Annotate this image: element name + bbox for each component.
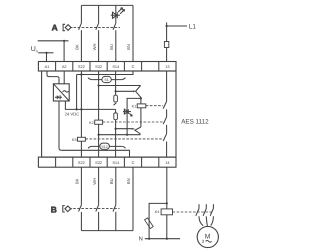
svg-text:n: n xyxy=(36,48,38,53)
svg-text:K2: K2 xyxy=(89,121,94,125)
svg-text:S32: S32 xyxy=(95,64,102,69)
svg-text:S22: S22 xyxy=(78,160,85,165)
actuator magnet A xyxy=(63,24,72,30)
resistor R1 xyxy=(114,95,118,102)
wire BN to C xyxy=(132,5,134,61)
wire BU to bus B xyxy=(115,212,117,231)
svg-text:C: C xyxy=(132,160,135,165)
contact sensor B ch2 xyxy=(96,205,99,212)
wire between contacts 2-3 xyxy=(166,125,168,134)
svg-text:K4: K4 xyxy=(155,210,160,214)
wire BK to bus B xyxy=(80,212,82,231)
wire BU lower xyxy=(115,167,117,205)
svg-text:BN: BN xyxy=(126,44,131,50)
contactor K4 pole 2 xyxy=(203,204,207,226)
power supply U1 xyxy=(53,84,69,101)
svg-text:S1: S1 xyxy=(104,78,108,82)
relay AES 1112 body xyxy=(42,71,176,157)
svg-text:S14: S14 xyxy=(112,64,120,69)
svg-text:S14: S14 xyxy=(112,160,120,165)
junction N varistor xyxy=(148,238,150,240)
terminal strip top row xyxy=(38,62,176,72)
wire A2 into PSU xyxy=(63,71,65,84)
wire WH lower xyxy=(98,167,100,205)
wire N line xyxy=(145,238,180,240)
wire chevron2 rail xyxy=(99,134,141,136)
contact sensor A ch1 xyxy=(79,23,82,30)
varistor RV1 xyxy=(145,218,154,229)
svg-text:A2: A2 xyxy=(62,64,67,69)
wire 0V bus to C bottom xyxy=(61,150,129,157)
svg-text:K3: K3 xyxy=(72,138,77,142)
svg-text:A1: A1 xyxy=(45,64,50,69)
wire stub above L1 junction xyxy=(166,22,168,26)
svg-text:S12: S12 xyxy=(101,145,107,149)
svg-text:M: M xyxy=(205,234,211,241)
svg-text:S32: S32 xyxy=(95,160,102,165)
contact sensor B ch1 xyxy=(79,205,82,212)
svg-text:BU: BU xyxy=(109,178,114,184)
wire A1 into PSU xyxy=(47,71,59,84)
LED internal xyxy=(123,109,132,116)
contact K3 output xyxy=(163,134,166,141)
junction varistor branch xyxy=(166,202,168,204)
motor M1 xyxy=(197,226,218,247)
contact sensor A ch2 xyxy=(96,23,99,30)
mechanical link sensor B xyxy=(73,208,119,210)
fuse F1 xyxy=(164,42,168,48)
wire LED branch xyxy=(127,98,141,109)
wire contact 3 to terminal 14 xyxy=(166,142,168,158)
LED sensor A xyxy=(111,8,125,19)
wire sensor B bottom bus xyxy=(81,230,133,232)
wire arrow to K1 contact xyxy=(116,90,136,92)
contact sensor A ch3 xyxy=(113,23,116,30)
wire K2 to S32 bottom xyxy=(98,124,100,157)
junction riser xyxy=(76,108,78,110)
wire arrow to K2 contact xyxy=(116,128,135,130)
junction S22 24V xyxy=(80,108,82,110)
svg-text:A: A xyxy=(52,22,58,32)
wire S14 internal upper xyxy=(115,71,117,95)
wire S14 internal lower xyxy=(115,120,117,157)
svg-text:B: B xyxy=(51,204,57,214)
junction S14 branch xyxy=(115,90,117,92)
svg-text:BU: BU xyxy=(109,44,114,50)
jumper oval S1 xyxy=(88,76,126,82)
wire BK upper xyxy=(80,5,82,23)
wire A1 drop xyxy=(46,53,48,62)
junction K1 node xyxy=(140,97,142,99)
wire varistor to N xyxy=(148,228,150,238)
wire BK to S22 xyxy=(80,30,82,61)
wire Un upper to A2 xyxy=(38,40,69,42)
relay coil K4 xyxy=(161,209,172,215)
contactor K4 pole 3 xyxy=(210,204,213,225)
wire K4 to N xyxy=(166,215,168,239)
svg-text:WH: WH xyxy=(92,44,97,51)
contact K1 output xyxy=(163,101,166,108)
mechanical link K4 xyxy=(173,211,214,213)
wire terminal 13 internal xyxy=(166,71,168,101)
wire WH to S32 xyxy=(98,30,100,61)
wire S22 internal xyxy=(80,71,82,137)
wire LED to rail xyxy=(126,109,128,135)
wire A2 drop xyxy=(63,41,65,62)
wire L1 feed xyxy=(167,25,187,27)
junction S32 bus xyxy=(98,84,100,86)
wire WH upper xyxy=(98,5,100,23)
svg-text:WH: WH xyxy=(92,178,97,185)
sensor B label xyxy=(51,204,57,214)
wire Un lower to A1 xyxy=(38,52,53,54)
svg-text:BK: BK xyxy=(75,44,80,50)
wire varistor branch xyxy=(149,203,167,218)
svg-text:C: C xyxy=(132,64,135,69)
jumper oval S12 xyxy=(88,143,125,149)
wire K3 to S22 bottom xyxy=(80,141,82,157)
resistor R2 xyxy=(114,113,118,120)
junction S22 top rail xyxy=(80,73,82,75)
svg-text:3: 3 xyxy=(202,239,205,244)
junction S32 lower xyxy=(98,134,100,136)
wire WH to bus B xyxy=(98,212,100,231)
wire between contacts 1-2 xyxy=(166,109,168,117)
svg-text:AES 1112: AES 1112 xyxy=(181,119,209,126)
contactor K4 pole 1 xyxy=(196,204,203,226)
mechanical link sensor A xyxy=(74,26,121,28)
wire BU to S14 xyxy=(115,30,117,61)
relay coil K1 xyxy=(137,104,146,108)
svg-text:13: 13 xyxy=(165,64,169,69)
contact tick R1 xyxy=(114,103,117,105)
wire PSU 24V output xyxy=(65,101,115,109)
junction N coil xyxy=(166,238,168,240)
sensor A label xyxy=(52,22,58,32)
mechanical link K3 xyxy=(85,138,163,140)
svg-text:S22: S22 xyxy=(78,64,85,69)
wire L1 down to fuse xyxy=(166,26,168,42)
contact K2 output xyxy=(163,117,166,124)
svg-text:BN: BN xyxy=(126,178,131,184)
svg-text:K1: K1 xyxy=(132,104,137,108)
wire bus to K1 contact xyxy=(99,85,141,87)
junction S14 lower branch xyxy=(115,128,117,130)
wire S14 mid xyxy=(115,109,117,113)
contact K1 chevron xyxy=(136,86,141,99)
wire top rail to C xyxy=(77,71,133,75)
terminal strip bottom row xyxy=(38,157,176,167)
wire BN lower xyxy=(132,167,134,230)
relay coil K2 xyxy=(95,120,103,124)
svg-text:N: N xyxy=(139,237,143,243)
wire 24V riser xyxy=(76,75,78,110)
wire K1 coil feed xyxy=(140,98,142,104)
mechanical link K2 xyxy=(103,121,163,123)
svg-text:14: 14 xyxy=(165,160,170,165)
junction A2 tap xyxy=(63,40,65,42)
wire K1 coil to chevron2 xyxy=(140,108,142,127)
wire BK lower xyxy=(80,167,82,205)
svg-text:L1: L1 xyxy=(189,24,197,31)
relay coil K3 xyxy=(78,137,86,141)
svg-text:BK: BK xyxy=(75,178,80,184)
junction A1 tap xyxy=(45,52,47,54)
mechanical link K1 xyxy=(146,105,163,107)
wire S32 internal xyxy=(98,71,100,120)
junction L1 xyxy=(166,25,168,27)
wire fuse to terminal 13 xyxy=(166,48,168,62)
contact K2 chevron xyxy=(135,127,141,135)
contact sensor B ch3 xyxy=(113,205,116,212)
junction LED rail xyxy=(126,134,128,136)
node Un supply label xyxy=(31,46,38,53)
svg-text:24 VDC: 24 VDC xyxy=(65,112,80,117)
wire BU upper xyxy=(115,5,117,23)
actuator magnet B xyxy=(63,206,72,212)
wire terminal 14 drop xyxy=(166,167,168,209)
wire PSU 0V output xyxy=(59,101,61,150)
wire sensor A top bus xyxy=(81,4,133,6)
